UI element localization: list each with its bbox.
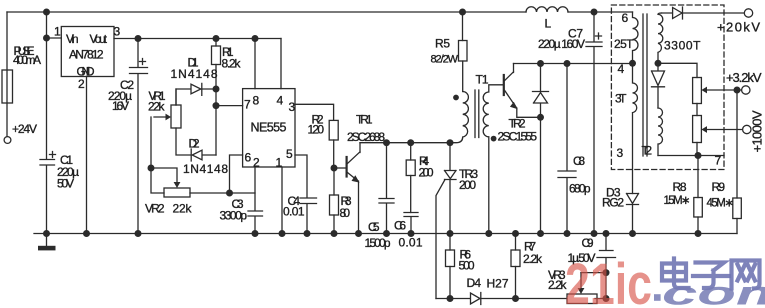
node T2 pin4 junction [629,60,636,67]
transformer T1 core [475,90,479,138]
potentiometer VR3 2.2k [567,273,606,304]
svg-text:8: 8 [253,94,260,108]
node T1 secondary phase dot [491,136,497,142]
wire NE555 pin8 [254,39,256,89]
watermark .com blue [654,274,765,308]
timer U NE555 [243,89,295,167]
svg-text:1N4148: 1N4148 [171,67,218,81]
capacitor C1 [40,38,56,234]
transistor TR1 2SC2688 [334,143,360,234]
svg-text:D4: D4 [467,276,482,290]
svg-text:45M∗: 45M∗ [707,198,735,210]
svg-text:82/2W: 82/2W [431,54,459,66]
node C2 junction [135,35,142,42]
label C8 [569,154,591,196]
node TR2 emitter junction [537,114,544,121]
svg-text:200: 200 [459,178,476,192]
svg-text:2: 2 [253,156,260,170]
svg-text:NE555: NE555 [251,121,287,135]
label T2 [642,144,653,158]
potentiometer VR2 22k [151,168,255,197]
svg-text:+24V: +24V [12,122,37,136]
node VR2 wiper junction [148,165,155,172]
svg-text:8.2k: 8.2k [222,57,242,71]
label D1 [171,56,218,82]
diode D4 H27 [436,293,567,305]
node T2 HV tap junction [655,60,662,67]
diode damper across TR2 [533,64,549,234]
label R9 [707,180,735,210]
regulator U AN7812 [61,27,114,77]
wire pin3 AN7812 to +12V node [114,38,281,40]
wire top +24V rail [7,11,633,13]
wire T2 pin7 [658,155,724,157]
capacitor C2 [130,39,148,234]
label C1 [57,153,79,191]
svg-text:0.01: 0.01 [283,205,305,219]
svg-text:+20kV: +20kV [717,20,760,35]
svg-text:6: 6 [245,151,252,165]
svg-text:2: 2 [78,77,85,91]
node R9 top junction [734,87,741,94]
svg-text:TR2: TR2 [509,117,526,131]
diode D1 1N4148 [176,83,216,105]
node pin6/pin2 junction [226,190,233,197]
svg-text:400mA: 400mA [13,53,41,67]
svg-text:0.01: 0.01 [399,236,423,250]
svg-text:500: 500 [459,259,475,273]
capacitor C3 [248,167,263,234]
node divider bottom junction [695,152,702,159]
wire pin1 AN7812 [47,37,62,39]
svg-text:R5: R5 [435,37,450,51]
label R8 [664,180,691,207]
wire to NE555 pin7 [216,105,243,107]
transformer T2 HV 3300T winding lower [658,108,663,156]
svg-text:3: 3 [289,100,296,114]
label T2 pin7 [715,154,722,168]
svg-text:3300p: 3300p [220,209,248,223]
label VR3 [548,268,568,292]
resistor R3 [330,168,339,234]
svg-text:220µ 160V: 220µ 160V [538,37,585,51]
label AN7812 pins [54,25,121,92]
svg-text:5: 5 [286,147,293,161]
transformer T2 HV 3300T winding upper [658,13,663,63]
wire NE555 pin4 [280,39,282,89]
label fuse [13,44,41,67]
label R2 [308,113,325,137]
label T2 pin3 [617,146,624,160]
node R4 junction [407,139,414,146]
node C9 wiper junction [603,269,610,276]
transformer T2 primary 25T winding [633,12,639,63]
resistor R4 [406,143,415,213]
node R1 top junction [213,35,220,42]
svg-text:15M∗: 15M∗ [664,195,691,207]
capacitor C5 [379,143,394,234]
label 25T [614,37,634,51]
wire +1000V output [701,126,742,133]
resistor R2 [329,120,338,168]
diode D2 1N4148 [176,128,216,161]
wire VR1 wiper down [151,117,164,193]
svg-text:D2: D2 [189,137,200,151]
node D1 cathode junction [213,86,220,93]
node C7 top junction [591,9,598,16]
capacitor C9 [597,234,616,299]
label R4 [419,154,434,180]
svg-text:T1: T1 [476,73,489,87]
node ground rail junctions [43,230,702,237]
potentiometer focus lower [693,116,702,156]
node damper diode top junction [537,60,544,67]
label C9 [568,236,596,265]
capacitor C7 [586,12,602,234]
svg-text:Vout: Vout [90,32,108,46]
transformer T2 3T winding [633,63,638,193]
resistor R5 82/2W [459,12,468,92]
label VR2 [145,202,193,216]
wire +24V input lead [6,12,8,137]
label TR1 [347,113,385,145]
svg-text:AN7812: AN7812 [69,48,104,62]
svg-text:C5: C5 [368,220,380,234]
node +24V input terminal [4,137,11,144]
label C5 [365,220,391,250]
wire TR2 collector rail to T2 pin4 [514,63,633,65]
svg-text:VR2: VR2 [145,202,165,216]
node R6 bottom junction [447,295,454,302]
label C3 [220,197,248,223]
fuse PUSE 400mA [2,70,13,103]
svg-text:+1000V: +1000V [750,110,765,152]
svg-text:1: 1 [54,25,61,39]
label D2 [183,137,228,177]
node +20kV terminal [744,9,752,17]
resistor R7 2.2k [511,234,520,299]
capacitor C4 [295,155,317,234]
wire tap to focus divider [658,63,697,77]
inductor L [526,7,568,12]
svg-text:50V: 50V [57,177,74,191]
svg-text:R8: R8 [673,180,687,194]
svg-text:7: 7 [715,154,722,168]
svg-text:680p: 680p [569,182,591,196]
svg-text:H27: H27 [487,277,509,291]
svg-text:22k: 22k [173,202,193,216]
label C2 [108,78,134,113]
svg-text:2SC1555: 2SC1555 [498,130,538,144]
label R6 [459,248,475,273]
node pin8 junction [252,35,259,42]
label R5 [431,37,459,66]
potentiometer focus upper [693,78,702,116]
svg-text:4: 4 [277,94,284,108]
label 3300T [664,39,701,53]
wire NE555 pin1 [281,167,283,234]
label C7 [538,27,585,52]
label VR1 [148,89,166,114]
svg-text:21ic: 21ic [565,252,652,308]
label AN7812 [66,32,108,79]
transformer T1 secondary winding [483,85,503,234]
node T1 primary phase dot [453,95,459,101]
svg-text:C6: C6 [394,219,406,233]
node C5 junction [383,139,390,146]
svg-text:+3.2kV: +3.2kV [726,70,762,85]
node VR3 right junction [603,295,610,302]
thyristor TR3 200 [436,143,456,299]
svg-text:2SC2688: 2SC2688 [347,130,385,144]
capacitor C8 [558,64,576,234]
node pin7 junction [213,102,220,109]
node TR3 anode junction [447,139,454,146]
label NE555 pins [244,94,296,170]
svg-text:C9: C9 [582,236,594,250]
node junction top rail / AN7812 input [43,9,50,16]
wire from top rail down to Vin node [46,12,48,38]
svg-text:7: 7 [244,98,251,112]
wire ground rail [34,233,737,235]
node Vin junction [43,35,50,42]
svg-text:TR1: TR1 [356,113,373,127]
svg-text:R9: R9 [712,180,726,194]
svg-text:Vin: Vin [66,32,79,46]
wire +3.2kV output [701,87,741,94]
label T2 pin4 [618,62,625,76]
svg-text:4: 4 [618,62,625,76]
svg-text:3: 3 [114,25,121,39]
capacitor C6 [404,213,418,234]
label +1000V [750,110,765,152]
node TR1 base junction [331,165,338,172]
label C4 [283,194,305,219]
svg-text:6: 6 [622,11,629,25]
label +3.2kV [726,70,762,85]
label R3 [340,194,352,220]
label TR2 [498,117,538,144]
svg-text:RG2: RG2 [602,196,624,210]
label T2 pin6 [622,11,629,25]
transformer T2 core [643,14,647,156]
label T1 [476,73,489,87]
label TR3 [459,167,478,192]
node R7 bottom junction [512,295,519,302]
svg-text:120: 120 [308,123,325,137]
label D3 [602,186,624,210]
watermark 21ic red [565,252,652,308]
node C8 top junction [564,60,571,67]
transformer T1 primary winding [450,92,468,143]
resistor R6 500 [446,234,455,299]
label R1 [222,45,242,71]
potentiometer VR1 22k [154,89,181,128]
wire pin2 AN7812 to ground rail [86,77,88,234]
svg-text:16V: 16V [112,99,129,113]
svg-text:2.2k: 2.2k [523,252,543,266]
svg-text:3: 3 [617,146,624,160]
label +24V [12,122,37,136]
diode HV internal [652,63,665,108]
label C6 [394,219,423,250]
svg-text:22k: 22k [148,100,166,114]
watermark dianziwang glyphs [662,259,760,289]
svg-text:3300T: 3300T [664,39,701,53]
resistor R1 [212,39,221,90]
wire NE555 pin6 [230,155,243,193]
node +1000V terminal [743,125,751,133]
svg-text:200: 200 [419,166,434,180]
label L [545,17,552,31]
svg-text:1: 1 [276,156,283,170]
label 3T [615,92,627,106]
svg-text:com: com [662,274,765,308]
svg-text:1500p: 1500p [365,236,391,250]
label NE555 [251,121,287,135]
label +20kV [717,20,760,35]
svg-text:25T: 25T [614,37,634,51]
svg-text:C8: C8 [573,154,585,168]
wire R1 node down to D2 [215,89,217,155]
label D4 [467,276,509,291]
wire NE555 pin3 [295,104,334,120]
node R5 top junction [459,9,466,16]
label R7 [523,240,543,267]
node +3.2kV terminal [742,86,750,94]
svg-text:80: 80 [340,206,351,220]
svg-text:3T: 3T [615,92,627,106]
ground [38,234,56,251]
resistor R9 45M [733,90,742,234]
svg-text:1N4148: 1N4148 [183,162,228,176]
transformer T2 shield dashed box [611,5,724,170]
transistor TR2 2SC1555 [504,64,541,118]
wire TR1 collector bus [360,142,450,144]
svg-text:T2: T2 [642,144,653,158]
diode D3 RG2 [627,194,639,234]
diode HV rectifier to +20kV [662,7,745,19]
svg-text:L: L [545,17,552,31]
resistor R8 15M [694,156,703,234]
